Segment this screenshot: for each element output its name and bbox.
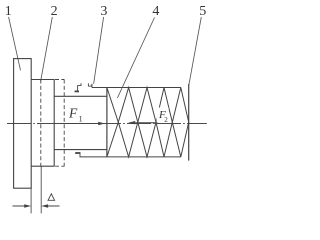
svg-text:4: 4: [152, 4, 159, 19]
leader to spring 4: [117, 18, 154, 99]
spring 4 diamond 1: [118, 88, 138, 157]
F2 label backing: [157, 108, 169, 123]
centerline (dash-dot axis): [7, 123, 207, 125]
spring left seat: [106, 88, 108, 157]
leader to part 3: [94, 17, 104, 84]
extension line from sleeve edge: [40, 166, 42, 213]
gap symbol triangle: [48, 194, 55, 201]
svg-text:2: 2: [51, 4, 58, 19]
svg-text:2: 2: [164, 116, 168, 124]
force F1 arrow shaft: [60, 123, 99, 125]
force F2 arrow shaft: [135, 122, 157, 124]
hub bottom outline: [31, 165, 54, 167]
force F2 arrowhead: [128, 121, 135, 124]
plate part 1: [14, 59, 32, 189]
sleeve bottom edge: [54, 149, 107, 151]
clip tick top: [88, 83, 92, 86]
force F1 arrowhead: [98, 122, 105, 125]
svg-text:3: 3: [100, 4, 107, 19]
hub bottom hidden edge (dashed): [55, 165, 64, 167]
spring 4 half diamond left: [107, 88, 118, 157]
leader to part 2: [41, 17, 53, 81]
hidden edge dashed left: [40, 80, 42, 167]
hidden edge dashed right: [63, 80, 65, 167]
svg-text:1: 1: [79, 115, 83, 124]
dimension arrow right: [43, 205, 60, 207]
clip post top: [91, 84, 93, 88]
clip stem top: [78, 83, 81, 91]
extension line from plate edge: [30, 188, 32, 213]
leader to part 1: [9, 17, 21, 70]
spring 4 diamond 4: [172, 88, 188, 157]
svg-text:1: 1: [5, 4, 12, 19]
spring right plate part 5: [188, 84, 190, 161]
clip foot top: [75, 90, 79, 92]
spring bottom rail: [80, 156, 182, 158]
spring top rail: [92, 87, 181, 89]
leader to part 5: [189, 17, 202, 85]
hub right face: [53, 80, 55, 167]
hub top hidden edge (dashed): [55, 79, 64, 81]
hub top outline part 2: [31, 79, 54, 81]
clip bar bottom: [75, 152, 80, 154]
svg-text:F: F: [68, 106, 78, 121]
spring 4 diamond 2: [138, 88, 156, 157]
sleeve top edge part 3: [54, 95, 107, 97]
svg-text:5: 5: [199, 4, 206, 19]
spring 4 diamond 3: [156, 88, 172, 157]
dimension arrow left: [13, 205, 30, 207]
clip tick bottom: [79, 153, 81, 157]
